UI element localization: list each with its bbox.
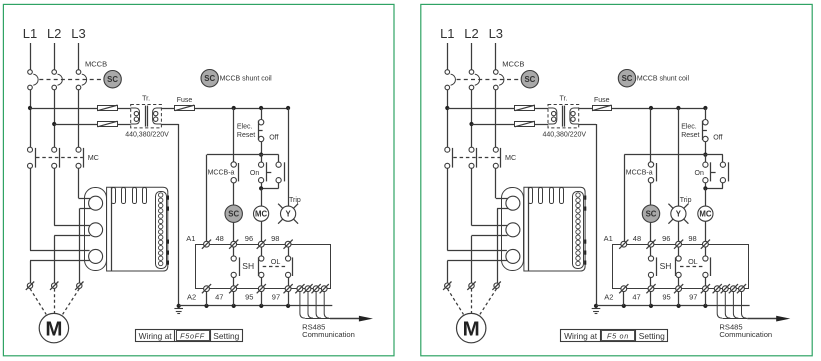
svg-text:95: 95 [662,292,670,301]
svg-text:F5oFF: F5oFF [180,331,205,340]
svg-text:Setting: Setting [639,331,665,341]
svg-text:Setting: Setting [213,331,239,341]
svg-text:A1: A1 [186,234,195,243]
svg-text:MCCB shunt coil: MCCB shunt coil [220,76,273,83]
svg-text:On: On [250,170,259,177]
svg-text:Tr.: Tr. [142,96,150,103]
svg-text:MC: MC [505,153,516,162]
svg-text:Trip: Trip [680,197,692,204]
svg-text:On: On [695,170,704,177]
svg-text:95: 95 [245,292,253,301]
svg-text:L2: L2 [47,26,61,41]
svg-text:96: 96 [245,234,253,243]
svg-text:48: 48 [216,234,224,243]
svg-text:L1: L1 [440,26,454,41]
svg-text:47: 47 [632,292,640,301]
svg-text:440,380/220V: 440,380/220V [125,132,169,139]
svg-text:Trip: Trip [289,197,301,204]
svg-text:SC: SC [524,75,535,84]
svg-text:Wiring at: Wiring at [564,331,598,341]
svg-text:Wiring at: Wiring at [139,331,173,341]
svg-text:97: 97 [272,292,280,301]
svg-text:SH: SH [660,261,672,271]
svg-text:MC: MC [699,209,711,218]
svg-text:Reset: Reset [681,132,699,139]
svg-text:SH: SH [242,261,254,271]
svg-text:98: 98 [688,234,696,243]
svg-text:L1: L1 [23,26,37,41]
svg-text:98: 98 [271,234,279,243]
svg-text:A1: A1 [604,234,613,243]
svg-text:MCCB-a: MCCB-a [626,170,653,177]
svg-text:SC: SC [204,74,215,83]
svg-text:Fuse: Fuse [177,97,193,104]
svg-text:Communication: Communication [719,330,772,339]
svg-text:MCCB-a: MCCB-a [208,170,235,177]
svg-text:MC: MC [88,153,99,162]
svg-text:97: 97 [689,292,697,301]
svg-text:M: M [45,317,62,340]
svg-text:47: 47 [215,292,223,301]
svg-text:Y: Y [676,209,682,218]
svg-text:A2: A2 [187,292,196,301]
svg-text:F5 on: F5 on [607,331,629,340]
svg-text:M: M [463,317,480,340]
svg-text:MCCB shunt coil: MCCB shunt coil [637,76,690,83]
svg-text:Fuse: Fuse [594,97,610,104]
svg-text:L3: L3 [489,26,503,41]
svg-text:OL: OL [688,257,698,266]
svg-text:OL: OL [271,257,281,266]
svg-text:Elec.: Elec. [237,124,253,131]
svg-text:Off: Off [713,135,722,142]
svg-text:Communication: Communication [302,330,355,339]
svg-text:Reset: Reset [237,132,255,139]
svg-text:L2: L2 [464,26,478,41]
svg-text:96: 96 [662,234,670,243]
svg-text:440,380/220V: 440,380/220V [543,132,587,139]
svg-text:Elec.: Elec. [681,124,697,131]
svg-text:MCCB: MCCB [85,60,107,69]
svg-text:L3: L3 [71,26,85,41]
svg-text:Tr.: Tr. [559,96,567,103]
svg-text:SC: SC [646,209,657,218]
svg-text:MC: MC [255,209,267,218]
svg-text:SC: SC [228,209,239,218]
svg-text:Y: Y [285,209,291,218]
svg-text:SC: SC [622,74,633,83]
svg-text:48: 48 [633,234,641,243]
svg-text:Off: Off [269,135,278,142]
svg-text:MCCB: MCCB [502,60,524,69]
svg-text:A2: A2 [604,292,613,301]
svg-text:SC: SC [107,75,118,84]
